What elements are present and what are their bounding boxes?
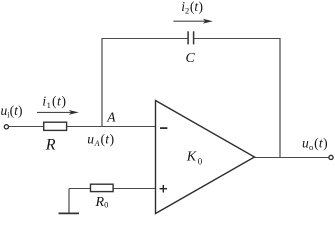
wire noninverting input (ground branch to op-amp plus input): [69, 188, 156, 190]
svg-text:C: C: [186, 51, 196, 66]
svg-text:A: A: [106, 109, 116, 124]
output terminal circle: [329, 155, 333, 159]
wire feedback top left segment: [102, 38, 188, 40]
svg-text:R: R: [45, 137, 56, 154]
op-amp inverting input minus sign: [160, 127, 167, 129]
current arrow i1(t): [37, 110, 79, 115]
op-amp noninverting input plus sign: [160, 185, 167, 193]
wire feedback left vertical (node A up): [101, 38, 103, 127]
current arrow i2(t): [173, 19, 212, 24]
wire output (op-amp apex to output terminal): [255, 157, 329, 159]
ground vertical lead: [68, 189, 70, 214]
svg-text:i1(t): i1(t): [42, 94, 66, 111]
input terminal circle: [4, 125, 8, 129]
wire feedback top right segment: [194, 38, 280, 40]
capacitor C plates: [188, 31, 194, 44]
svg-text:i2(t): i2(t): [181, 0, 203, 16]
svg-text:K0: K0: [186, 150, 203, 167]
resistor R box: [44, 122, 67, 130]
ground bar: [59, 212, 80, 214]
svg-text:uA(t): uA(t): [87, 132, 114, 149]
resistor R0 box: [91, 184, 114, 191]
svg-text:R0: R0: [95, 195, 109, 210]
svg-text:uo(t): uo(t): [302, 135, 328, 152]
op-amp U1 triangle: [156, 101, 255, 214]
svg-text:ui(t): ui(t): [1, 103, 23, 120]
wire feedback right vertical down to output: [279, 38, 281, 158]
wire main input (ui terminal to op-amp inverting input): [9, 126, 156, 128]
